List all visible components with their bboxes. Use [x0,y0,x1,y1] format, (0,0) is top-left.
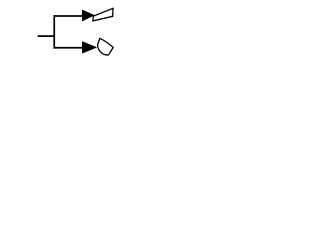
speaker driver triangle (bottom) [82,42,96,53]
wire to top speaker [54,15,83,17]
wire input stub [38,35,55,37]
speaker driver triangle (top) [82,10,94,21]
speaker horn curved (bottom) [98,38,114,55]
speaker horn parallelogram (top) [93,8,113,21]
wire to bottom speaker [54,47,83,49]
wire vertical bus [53,15,55,48]
